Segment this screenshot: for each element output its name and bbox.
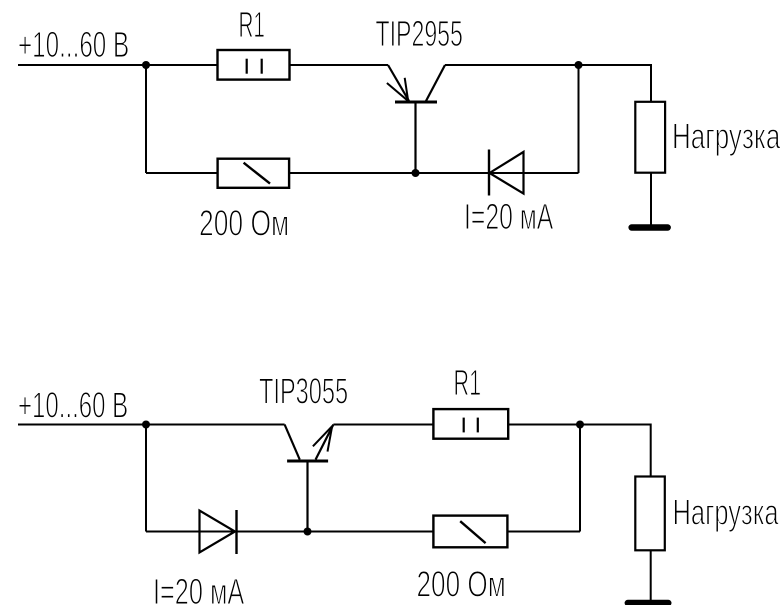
svg-text:+10...60 В: +10...60 В xyxy=(18,384,128,425)
wire J4 to load corner (bottom) xyxy=(580,425,651,477)
svg-text:I=20 мА: I=20 мА xyxy=(464,196,553,237)
wire load to ground (bottom) xyxy=(650,550,652,601)
resistor load (Нагрузка, top) xyxy=(635,102,665,173)
svg-text:TIP2955: TIP2955 xyxy=(376,13,463,54)
wire collector to J2 xyxy=(445,64,579,66)
svg-text:R1: R1 xyxy=(239,4,265,45)
wire J1 down xyxy=(145,65,147,173)
node junction J5 (base) xyxy=(304,528,312,536)
node junction J1 xyxy=(142,61,150,69)
node junction J4 xyxy=(576,421,584,429)
wire transistor to R1 (bottom) xyxy=(333,424,433,426)
ground (bottom) xyxy=(628,600,669,605)
wire 200 Om through diode to right branch xyxy=(289,172,578,174)
wire R1 to J4 xyxy=(508,424,580,426)
node junction J2 xyxy=(575,61,583,69)
resistor load (Нагрузка, bottom) xyxy=(635,477,665,551)
wire J2 to load corner xyxy=(579,65,652,102)
svg-text:200 Ом: 200 Ом xyxy=(417,563,506,604)
wire J3 to transistor xyxy=(146,424,285,426)
wire input bottom xyxy=(18,424,146,426)
diode D1 (LED, pointing left) xyxy=(489,150,524,196)
node junction J3 xyxy=(142,421,150,429)
svg-text:200 Ом: 200 Ом xyxy=(199,203,289,244)
ground (top) xyxy=(632,224,668,230)
transistor Q2 TIP3055 (NPN) xyxy=(285,425,334,532)
svg-text:I=20 мА: I=20 мА xyxy=(153,571,244,605)
wire J1 to R1 xyxy=(146,64,218,66)
resistor 200 Om (bottom) xyxy=(433,516,507,548)
svg-text:Нагрузка: Нагрузка xyxy=(672,116,780,157)
wire J4 down xyxy=(579,425,581,532)
wire 200 Om to right branch (bottom) xyxy=(507,531,580,533)
wire input top xyxy=(18,64,146,66)
svg-text:R1: R1 xyxy=(454,362,482,403)
wire J2 down to diode branch xyxy=(578,65,580,173)
resistor R1 (bottom) xyxy=(433,409,508,439)
resistor R1 (top) xyxy=(218,50,290,80)
wire R1 to transistor emitter xyxy=(290,64,389,66)
transistor Q1 TIP2955 (PNP) xyxy=(387,65,445,173)
wire J3 down xyxy=(145,425,147,532)
diode D2 (LED, pointing right) xyxy=(200,510,237,554)
wire to 200 Ohm resistor xyxy=(146,172,218,174)
node junction base Q1 xyxy=(412,169,420,177)
wire load to ground xyxy=(650,173,652,225)
wire through diode to 200 Om (bottom) xyxy=(146,531,433,533)
svg-text:Нагрузка: Нагрузка xyxy=(673,491,780,532)
svg-text:TIP3055: TIP3055 xyxy=(259,371,348,412)
resistor 200 Om (top) xyxy=(218,159,290,188)
svg-text:+10...60 В: +10...60 В xyxy=(18,24,129,65)
